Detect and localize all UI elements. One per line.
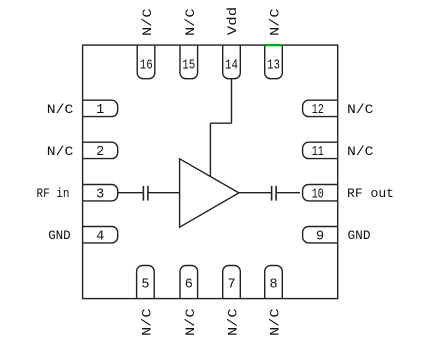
svg-text:N/C: N/C — [347, 144, 374, 159]
svg-text:N/C: N/C — [268, 308, 283, 336]
amplifier A1 — [180, 159, 239, 227]
pin 3 pad — [83, 185, 118, 201]
svg-text:GND: GND — [48, 228, 71, 243]
svg-text:N/C: N/C — [47, 102, 74, 117]
svg-text:13: 13 — [267, 58, 280, 73]
svg-text:6: 6 — [185, 278, 193, 293]
svg-text:11: 11 — [312, 145, 324, 160]
svg-text:10: 10 — [312, 187, 324, 202]
pin 14 pad — [223, 45, 241, 79]
pin 7 pad — [223, 266, 241, 299]
pin 10 pad — [303, 185, 338, 201]
wire pin 3 to C1 — [118, 192, 143, 194]
wire Vdd segment: down from pin 14 — [231, 79, 233, 124]
svg-text:GND: GND — [348, 228, 371, 243]
svg-text:N/C: N/C — [140, 308, 155, 336]
svg-text:2: 2 — [96, 145, 104, 160]
svg-text:7: 7 — [227, 278, 235, 293]
pin 15 pad — [180, 45, 198, 79]
pin 8 pad — [265, 266, 283, 299]
pin 13 pad — [265, 45, 283, 79]
svg-text:14: 14 — [225, 58, 238, 73]
wire Vdd segment: down to amplifier top edge — [209, 123, 211, 176]
svg-text:15: 15 — [182, 58, 195, 73]
svg-text:N/C: N/C — [268, 8, 283, 36]
svg-text:16: 16 — [140, 58, 153, 73]
svg-text:1: 1 — [96, 103, 104, 118]
wire Vdd segment: horizontal jog left — [210, 122, 231, 124]
pin 2 pad — [83, 142, 118, 158]
svg-text:N/C: N/C — [226, 308, 241, 336]
pin 16 pad — [137, 45, 155, 79]
svg-text:Vdd: Vdd — [225, 7, 240, 36]
pin 11 pad — [303, 142, 338, 158]
svg-text:5: 5 — [141, 278, 149, 293]
wire C2 to pin 10 — [277, 192, 300, 194]
svg-text:4: 4 — [96, 229, 104, 244]
svg-text:N/C: N/C — [47, 144, 74, 159]
capacitor C1 input DC block — [143, 186, 148, 201]
pin 9 pad — [303, 227, 338, 243]
svg-text:RF out: RF out — [347, 186, 394, 201]
svg-text:N/C: N/C — [347, 102, 374, 117]
capacitor C2 output DC block — [272, 186, 277, 201]
svg-text:12: 12 — [312, 103, 324, 118]
svg-text:8: 8 — [269, 278, 277, 293]
wire amplifier output to C2 — [239, 192, 271, 194]
green highlight on pin 13 top edge — [265, 44, 283, 46]
pin 6 pad — [180, 266, 198, 299]
pin 4 pad — [83, 227, 118, 243]
svg-text:N/C: N/C — [140, 8, 155, 36]
wire C1 to amplifier input — [149, 192, 180, 194]
IC package body U1 — [83, 45, 338, 299]
pin 12 pad — [303, 100, 338, 116]
svg-text:3: 3 — [96, 187, 104, 202]
svg-text:RF in: RF in — [37, 186, 70, 201]
svg-text:N/C: N/C — [183, 308, 198, 336]
svg-text:N/C: N/C — [183, 8, 198, 36]
pin 1 pad — [83, 100, 118, 116]
pin 5 pad — [137, 266, 155, 299]
svg-text:9: 9 — [316, 229, 324, 244]
